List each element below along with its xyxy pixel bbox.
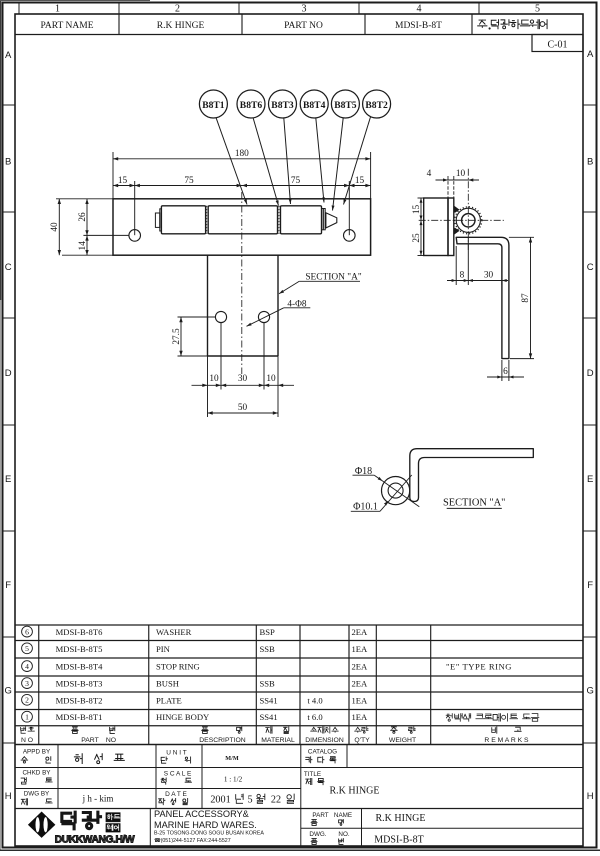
svg-text:MDSI-B-8T5: MDSI-B-8T5 (56, 644, 103, 654)
side view: hinge body flat bar (t4) (448, 198, 454, 256)
dimension chain 10/30/10 (leaf holes) (192, 323, 295, 390)
svg-text:B: B (5, 156, 11, 167)
svg-text:50: 50 (238, 403, 248, 413)
leader line from balloon B8T5 (332, 118, 344, 211)
approved by cell (21, 749, 51, 764)
side view dimension 15/25 (412, 198, 424, 256)
svg-text:APPD BY: APPD BY (23, 749, 51, 756)
side view dimension 10 (456, 169, 473, 182)
front view: leaf hole right (4-phi8) (258, 311, 269, 322)
dwg no cell (309, 831, 349, 844)
svg-text:6: 6 (25, 627, 29, 636)
svg-text:F: F (5, 580, 11, 591)
section A: leaf profile (410, 449, 534, 502)
side view: pin bore circle (462, 214, 475, 227)
svg-text:B8T5: B8T5 (334, 100, 357, 111)
zone row letters left A-H (5, 50, 13, 802)
svg-text:75: 75 (291, 176, 301, 186)
side view: stop ring wedges (454, 206, 459, 235)
parts table row 2 PLATE (22, 694, 368, 705)
front view: right bush B8T3 (281, 206, 322, 234)
parts table grid (15, 625, 583, 745)
svg-text:3: 3 (302, 4, 307, 15)
svg-text:4: 4 (25, 662, 29, 671)
svg-text:B8T3: B8T3 (271, 100, 294, 111)
section A: pin bore circle phi10.1 (388, 483, 403, 498)
front view: center knuckle of hinge body B8T1 (208, 206, 277, 234)
scale cell (161, 771, 242, 785)
svg-text:180: 180 (235, 149, 249, 159)
logo korean 덕광 (62, 812, 101, 829)
header label PART NAME (40, 21, 93, 31)
leader line from balloon B8T2 (344, 117, 371, 205)
svg-text:D: D (5, 368, 12, 379)
svg-text:5: 5 (247, 794, 252, 805)
front view: vertical centerline (dash-dot) (241, 192, 243, 374)
svg-text:2: 2 (175, 4, 180, 15)
front view: left stop ring B8T4 (155, 209, 161, 231)
drawn by cell (21, 791, 52, 805)
svg-text:M/M: M/M (225, 755, 239, 762)
side view dimension 4 (427, 169, 479, 198)
front view: leaf hole left (4-phi8) (215, 311, 226, 322)
svg-text:C: C (587, 262, 594, 273)
svg-text:Q'TY: Q'TY (354, 737, 370, 744)
svg-text:HINGE BODY: HINGE BODY (156, 712, 209, 722)
svg-text:MDSI-B-8T2: MDSI-B-8T2 (56, 695, 103, 705)
svg-text:CATALOG: CATALOG (308, 749, 337, 756)
svg-text:27.5: 27.5 (172, 328, 182, 345)
svg-text:N O: N O (21, 737, 33, 744)
header value R.K HINGE (157, 21, 205, 31)
svg-text:B: B (587, 156, 593, 167)
svg-text:15: 15 (355, 176, 365, 186)
zone row letters right A-H (587, 49, 595, 802)
title block grid (15, 745, 583, 847)
front view: left bush B8T3 (161, 206, 205, 234)
side view dimension 6 (487, 360, 524, 381)
svg-text:D A T E: D A T E (165, 791, 187, 798)
svg-text:26: 26 (78, 212, 88, 222)
svg-text:WASHER: WASHER (156, 627, 192, 637)
label SECTION A (front view) with leader (279, 273, 362, 294)
svg-text:NO: NO (106, 737, 116, 744)
date cell (159, 791, 188, 805)
header row grid (15, 14, 583, 35)
label phi18 (353, 466, 375, 477)
svg-text:t 6.0: t 6.0 (307, 712, 322, 722)
svg-text:R.K HINGE: R.K HINGE (157, 21, 205, 31)
svg-text:B8T1: B8T1 (202, 100, 225, 111)
svg-text:A: A (5, 50, 12, 61)
logo diamond (28, 812, 56, 838)
header korean company name 주.덕광하드웨어 (478, 20, 547, 29)
svg-text:40: 40 (50, 222, 60, 232)
svg-text:CHKD BY: CHKD BY (23, 770, 52, 777)
side view dimension 8/30 (447, 237, 508, 285)
drawing number box C-01 (532, 35, 583, 52)
svg-text:SS41: SS41 (260, 695, 278, 705)
svg-text:C: C (5, 262, 12, 273)
svg-text:25: 25 (412, 233, 422, 243)
svg-text:2EA: 2EA (352, 627, 369, 637)
front view: pin head B8T5 (326, 213, 337, 228)
catalog cell (306, 749, 337, 763)
signature 허성표 (74, 754, 124, 764)
title cell (304, 771, 324, 785)
side view: plate block (424, 198, 448, 256)
svg-text:PANEL ACCESSORY&: PANEL ACCESSORY& (154, 809, 249, 819)
svg-text:WEIGHT: WEIGHT (389, 737, 416, 744)
svg-text:B8T4: B8T4 (303, 100, 326, 111)
top zone strip: column number ticks (19, 3, 479, 15)
leader line from balloon B8T6 (253, 118, 279, 206)
svg-text:BSP: BSP (260, 627, 276, 637)
svg-text:MDSI-B-8T1: MDSI-B-8T1 (56, 712, 103, 722)
label SECTION A (detail) (443, 497, 505, 508)
left margin row ticks (3, 105, 16, 743)
svg-text:6: 6 (503, 367, 508, 377)
svg-text:SECTION "A": SECTION "A" (443, 497, 505, 508)
svg-text:E: E (587, 474, 593, 485)
svg-text:MATERIAL: MATERIAL (261, 737, 295, 744)
dwg no value MDSI-B-8T (374, 835, 423, 846)
svg-text:30: 30 (484, 270, 494, 280)
part name value R.K HINGE (376, 813, 426, 824)
dimension 26/14 (78, 199, 129, 255)
title value R.K HINGE (330, 786, 380, 797)
svg-text:H: H (5, 791, 12, 802)
svg-text:14: 14 (78, 241, 88, 251)
leader line from balloon B8T3 (284, 118, 292, 204)
checked by cell (21, 770, 52, 785)
svg-text:t 4.0: t 4.0 (307, 695, 322, 705)
svg-text:DWG.: DWG. (309, 831, 326, 838)
svg-text:DWG BY: DWG BY (24, 791, 50, 798)
dimension 50 (leaf width) (208, 390, 279, 417)
dimension 40 (plate height) (50, 199, 113, 255)
svg-text:NO.: NO. (338, 831, 349, 838)
callout balloon B8T4 (300, 90, 328, 118)
svg-text:2EA: 2EA (352, 679, 369, 689)
svg-text:3: 3 (25, 679, 29, 688)
svg-text:30: 30 (238, 374, 248, 384)
side view: knuckle knurled circle (455, 207, 482, 234)
right margin row ticks (583, 105, 597, 743)
svg-text:B8T6: B8T6 (240, 100, 263, 111)
label 4-phi8 with leader (247, 299, 311, 326)
front view: left washer joint B8T6 (dotted) (206, 206, 207, 234)
remark korean plating note 청백색 크로메이트 도금 (446, 714, 539, 722)
date value 2001년 5월 22일 (210, 794, 294, 805)
svg-text:DESCRIPTION: DESCRIPTION (199, 737, 246, 744)
svg-text:1: 1 (25, 713, 29, 722)
svg-text:MDSI-B-8T4: MDSI-B-8T4 (56, 662, 103, 672)
section A: diagonal leader phi10.1 (380, 475, 412, 511)
svg-text:MARINE HARD WARES.: MARINE HARD WARES. (154, 820, 257, 830)
svg-text:MDSI-B-8T: MDSI-B-8T (395, 21, 442, 31)
svg-text:PART: PART (81, 737, 99, 744)
svg-text:PLATE: PLATE (156, 695, 182, 705)
section A: diagonal leader phi18 (374, 475, 419, 507)
svg-text:2001: 2001 (210, 794, 230, 805)
svg-text:TITLE: TITLE (304, 771, 321, 778)
dimension 180 (overall width) (113, 149, 371, 199)
svg-text:DUKKWANG.H/W: DUKKWANG.H/W (55, 835, 135, 846)
svg-text:22: 22 (271, 794, 281, 805)
svg-text:SS41: SS41 (260, 712, 278, 722)
unit cell (161, 750, 239, 764)
svg-text:SSB: SSB (260, 644, 276, 654)
side view: L-shaped leaf profile (456, 237, 509, 358)
front view: left mounting hole (129, 230, 141, 242)
company phone (154, 838, 231, 844)
svg-text:SSB: SSB (260, 679, 276, 689)
svg-text:MDSI-B-8T: MDSI-B-8T (374, 835, 423, 846)
logo small boxes 하드/웨어 (106, 813, 120, 833)
logo text DUKKWANG.H/W (55, 835, 135, 846)
svg-text:1EA: 1EA (352, 712, 369, 722)
svg-text:5: 5 (535, 4, 540, 15)
label phi10.1 (351, 501, 380, 512)
callout balloon B8T6 (237, 90, 265, 118)
svg-text:"E" TYPE RING: "E" TYPE RING (446, 662, 512, 672)
svg-text:10: 10 (209, 374, 219, 384)
company address (154, 831, 264, 837)
svg-text:☎(051)244-5127 FAX:244-5527: ☎(051)244-5127 FAX:244-5527 (154, 838, 231, 844)
svg-text:R.K HINGE: R.K HINGE (330, 786, 380, 797)
front view: lower leaf of hinge body (208, 255, 279, 356)
callout balloon B8T2 (363, 90, 391, 118)
svg-text:2: 2 (25, 696, 29, 705)
svg-text:G: G (5, 685, 12, 696)
svg-text:H: H (587, 791, 594, 802)
svg-text:PART NO: PART NO (284, 21, 323, 31)
parts table row 4 STOP RING (22, 661, 512, 672)
svg-text:R E M A R K S: R E M A R K S (484, 737, 529, 744)
svg-text:4: 4 (427, 169, 432, 179)
drawn by name j h - kim (82, 794, 114, 804)
svg-text:10: 10 (456, 169, 466, 179)
svg-text:PART NAME: PART NAME (40, 21, 93, 31)
section A: pin outer circle phi18 (382, 477, 410, 505)
svg-text:MDSI-B-8T3: MDSI-B-8T3 (56, 679, 103, 689)
front view: hinge plate outline (113, 199, 371, 255)
svg-text:j h - kim: j h - kim (82, 794, 114, 804)
company name line1 (154, 809, 249, 819)
svg-text:8: 8 (460, 270, 465, 280)
callout balloon B8T1 (199, 90, 227, 118)
svg-text:PIN: PIN (156, 644, 171, 654)
svg-text:15: 15 (412, 205, 422, 215)
svg-text:PART: PART (312, 812, 328, 819)
front view: right mounting hole (344, 230, 356, 242)
svg-text:S C A L E: S C A L E (164, 771, 192, 778)
svg-text:4: 4 (417, 4, 422, 15)
side view dimension 87 (509, 237, 534, 358)
svg-text:2EA: 2EA (352, 662, 369, 672)
svg-text:BUSH: BUSH (156, 679, 179, 689)
dimension chain 15/75/75/15 (113, 176, 371, 235)
svg-text:15: 15 (118, 176, 128, 186)
svg-text:1EA: 1EA (352, 644, 369, 654)
svg-text:C-01: C-01 (548, 40, 568, 51)
svg-text:1EA: 1EA (352, 695, 369, 705)
parts table header korean (21, 727, 522, 733)
leader line from balloon B8T1 (216, 118, 247, 205)
svg-text:G: G (587, 685, 594, 696)
zone column numbers 1-5 (55, 4, 540, 15)
part name cell (311, 812, 352, 825)
parts table row 5 PIN (22, 643, 368, 654)
svg-text:A: A (587, 49, 594, 60)
svg-text:1 : 1/2: 1 : 1/2 (224, 776, 243, 784)
dimension 27.5 (leaf hole to bottom) (172, 317, 216, 356)
svg-text:87: 87 (521, 293, 531, 303)
parts table row 3 BUSH (22, 678, 368, 689)
svg-text:B8T2: B8T2 (365, 100, 388, 111)
company name line2 (154, 820, 257, 830)
header label PART NO (284, 21, 323, 31)
callout balloon B8T5 (331, 90, 359, 118)
side view: vertical centerline (467, 169, 469, 250)
svg-text:B-25 TOSONG-DONG SOGU BUSAN KO: B-25 TOSONG-DONG SOGU BUSAN KOREA (154, 831, 264, 837)
parts table header english (21, 737, 529, 744)
header value MDSI-B-8T (395, 21, 442, 31)
front view: right stop washer B8T4 (322, 209, 325, 230)
svg-text:U N I T: U N I T (166, 750, 186, 757)
svg-text:E: E (5, 474, 11, 485)
svg-text:F: F (587, 580, 593, 591)
parts table row 1 HINGE BODY (22, 711, 368, 722)
svg-text:1: 1 (55, 4, 60, 15)
front view: right washer joint B8T6 (dotted) (278, 206, 280, 234)
svg-text:DIMENSION: DIMENSION (305, 737, 344, 744)
leader line from balloon B8T4 (316, 118, 325, 203)
svg-text:10: 10 (266, 374, 276, 384)
svg-text:MDSI-B-8T6: MDSI-B-8T6 (56, 627, 103, 637)
callout balloon B8T3 (269, 90, 297, 118)
parts table row 6 WASHER (22, 626, 368, 637)
svg-text:5: 5 (25, 644, 29, 653)
svg-text:STOP RING: STOP RING (156, 662, 200, 672)
svg-text:R.K HINGE: R.K HINGE (376, 813, 426, 824)
svg-text:NAME: NAME (334, 812, 352, 819)
svg-text:D: D (587, 368, 594, 379)
svg-text:75: 75 (184, 176, 194, 186)
side view: horizontal centerline (419, 219, 504, 221)
svg-text:Φ10.1: Φ10.1 (353, 501, 378, 512)
